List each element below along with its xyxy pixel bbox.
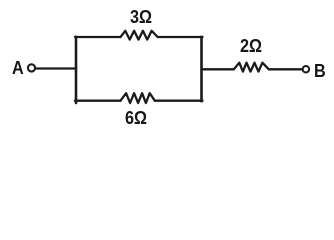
resistor R1 3ohm [121, 31, 158, 40]
value label 3ohm [130, 7, 152, 28]
value label 6ohm [125, 108, 147, 129]
node label B [314, 61, 326, 82]
wire R3 to terminal B [269, 68, 302, 70]
terminal A circle [28, 64, 35, 71]
wire bottom branch right segment [155, 100, 203, 102]
wire right vertical bus [200, 37, 203, 101]
node label A [12, 58, 24, 79]
terminal B circle [303, 66, 310, 73]
resistor R3 2ohm [234, 63, 269, 72]
wire bottom branch left segment [75, 100, 121, 102]
wire top branch right segment [158, 36, 203, 38]
wire A to left node [36, 67, 76, 69]
wire node to R3 [202, 68, 234, 70]
wire left vertical bus [75, 37, 78, 103]
value label 2ohm [240, 36, 262, 57]
wire top branch left segment [75, 36, 121, 38]
resistor R2 6ohm [121, 93, 155, 103]
